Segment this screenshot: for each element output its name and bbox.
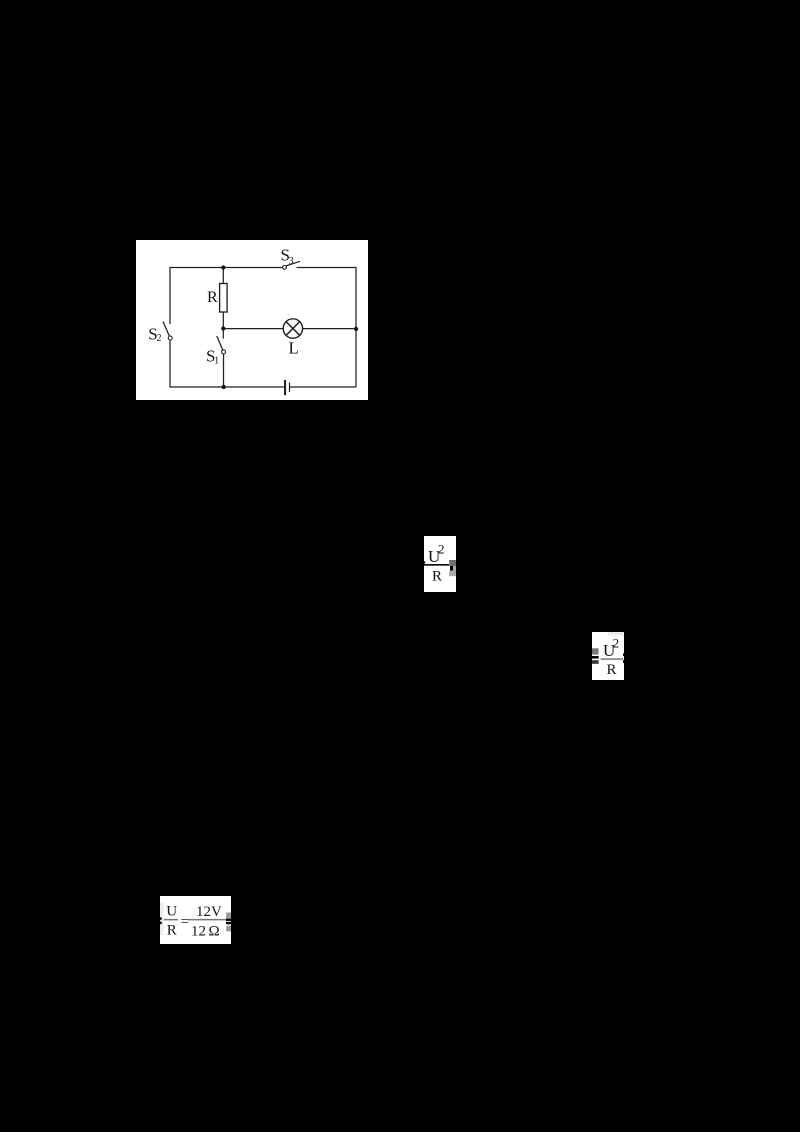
formula panel 1: U^2/R <box>424 536 456 592</box>
left gray strip <box>160 903 164 935</box>
right handle upper gray <box>226 913 231 919</box>
svg-text:Ω: Ω <box>209 924 220 940</box>
handle black mark <box>450 566 453 571</box>
svg-text:S2: S2 <box>148 324 161 344</box>
handle dark gray <box>449 560 456 566</box>
wire middle-right segment <box>303 328 356 330</box>
left edge bar upper <box>160 917 162 919</box>
handle light gray <box>453 566 456 576</box>
battery <box>284 380 290 395</box>
right nub lower <box>623 660 624 663</box>
left nub <box>424 561 425 563</box>
equals sign left dark bar <box>592 660 599 664</box>
svg-text:2: 2 <box>438 541 445 556</box>
fraction bar <box>424 564 449 566</box>
svg-text:2: 2 <box>613 635 620 650</box>
right handle lower gray <box>226 926 231 932</box>
formula panel 2: = U^2/R <box>592 632 624 680</box>
svg-text:12V: 12V <box>196 904 222 920</box>
node middle junction <box>221 326 225 330</box>
wire middle-left segment <box>223 328 283 330</box>
svg-text:12: 12 <box>191 924 206 940</box>
wire S1 to bottom <box>223 354 225 387</box>
wire bottom-right segment <box>290 386 356 388</box>
node right junction <box>354 327 358 331</box>
wire resistor branch bottom <box>222 313 224 339</box>
svg-text:L: L <box>289 338 299 357</box>
svg-text:R: R <box>167 923 177 939</box>
node top junction <box>221 265 225 269</box>
svg-text:=: = <box>181 914 189 930</box>
svg-text:U: U <box>166 903 177 919</box>
switch S1 <box>217 336 226 354</box>
svg-text:S3: S3 <box>281 245 294 267</box>
formula panel 3: U/R = 12V/12ohm <box>160 896 231 944</box>
wire resistor branch top <box>222 268 224 284</box>
top gray strip <box>608 632 624 636</box>
circuit diagram panel <box>136 240 368 400</box>
equals sign left black bar <box>592 656 599 659</box>
fraction bar <box>601 658 623 660</box>
svg-text:R: R <box>607 662 617 678</box>
svg-text:R: R <box>432 568 442 584</box>
switch S3 <box>283 261 300 269</box>
wire top-left segment <box>170 268 282 325</box>
right nub upper <box>623 653 624 656</box>
wire top-right segment <box>297 268 357 388</box>
node bottom junction <box>222 385 226 389</box>
resistor R <box>220 284 228 313</box>
left edge bar lower <box>160 922 162 925</box>
fraction bar <box>188 919 227 921</box>
right equals upper black <box>226 919 231 921</box>
equals sign left gray block <box>592 648 599 654</box>
svg-text:R: R <box>207 289 218 306</box>
lamp L <box>283 319 302 338</box>
svg-text:S1: S1 <box>206 347 219 367</box>
right equals lower black <box>226 922 231 925</box>
wire bottom-left segment <box>170 340 284 387</box>
switch S2 <box>163 322 172 341</box>
